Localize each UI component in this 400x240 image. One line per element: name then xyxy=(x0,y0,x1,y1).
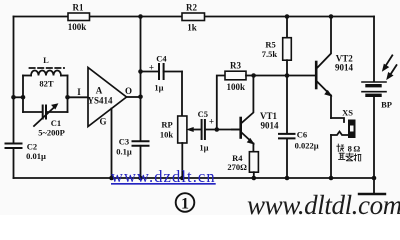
node output xyxy=(138,95,143,100)
svg-text:1µ: 1µ xyxy=(199,143,208,153)
op-amp A YS414 xyxy=(77,68,132,127)
node tank left xyxy=(21,95,26,100)
node ground G xyxy=(109,176,114,181)
svg-text:0.022µ: 0.022µ xyxy=(295,141,319,151)
svg-text:XS: XS xyxy=(342,108,353,118)
resistor R2 xyxy=(182,3,205,33)
watermark blue www.dzdlt.cn xyxy=(111,167,216,186)
node ground battery xyxy=(372,176,377,181)
capacitor C2 0.01µ xyxy=(6,142,46,162)
svg-text:100k: 100k xyxy=(68,22,87,32)
svg-text:BP: BP xyxy=(381,100,392,110)
wire base node up to R3 xyxy=(217,76,225,130)
node R5 / C6 / VT2 base xyxy=(285,73,290,78)
svg-text:C4: C4 xyxy=(156,54,167,64)
node R3 / VT1 collector xyxy=(251,73,256,78)
node ground XS xyxy=(329,176,334,181)
resistor R1 xyxy=(68,3,90,33)
svg-text:R3: R3 xyxy=(230,61,241,71)
capacitor C5 1µ electrolytic xyxy=(198,109,240,153)
svg-text:G: G xyxy=(99,117,106,127)
wire right rail upper xyxy=(373,17,375,82)
resistor R4 270Ω xyxy=(227,152,258,178)
node top rail / R5 xyxy=(285,14,290,19)
potentiometer RP 10k xyxy=(160,116,202,178)
node VT1 base / R3 xyxy=(215,127,220,132)
svg-text:C1: C1 xyxy=(51,118,61,128)
resistor R3 100k xyxy=(225,61,254,93)
wire opamp output xyxy=(127,96,141,98)
wire tank to left rail xyxy=(14,96,24,98)
svg-text:C2: C2 xyxy=(27,142,37,152)
transistor VT1 9014 xyxy=(232,76,279,152)
svg-text:www.dzdlt.cn: www.dzdlt.cn xyxy=(111,167,216,186)
capacitor C4 1µ electrolytic xyxy=(141,54,183,93)
wire bottom rail xyxy=(14,177,375,179)
label 接8Ω耳塞机 xyxy=(337,144,361,161)
node ground R4 xyxy=(252,176,257,181)
svg-text:1: 1 xyxy=(181,196,189,213)
capacitor C6 0.022µ xyxy=(279,76,319,179)
node ground RP xyxy=(180,176,185,181)
svg-text:C3: C3 xyxy=(119,137,129,147)
wire output node vertical up to top rail xyxy=(140,17,142,98)
node ground C3 xyxy=(138,176,143,181)
battery BP photocell xyxy=(362,82,392,110)
node top rail / VT2 collector xyxy=(329,14,334,19)
svg-text:9014: 9014 xyxy=(335,63,354,73)
capacitor C3 0.1µ xyxy=(116,137,148,179)
svg-text:RP: RP xyxy=(161,120,172,130)
svg-text:R2: R2 xyxy=(186,3,197,13)
svg-text:82T: 82T xyxy=(39,79,54,89)
svg-text:I: I xyxy=(77,87,81,97)
wire tank right vertical xyxy=(67,76,69,113)
svg-text:0.01µ: 0.01µ xyxy=(26,151,46,161)
svg-text:8: 8 xyxy=(348,144,353,154)
svg-text:L: L xyxy=(43,55,49,65)
capacitor C1 variable 5~200P xyxy=(23,104,68,138)
svg-text:10k: 10k xyxy=(160,130,174,140)
svg-text:270Ω: 270Ω xyxy=(227,162,247,172)
svg-text:0.1µ: 0.1µ xyxy=(116,147,132,157)
svg-text:R5: R5 xyxy=(265,40,275,50)
wire C4 to RP xyxy=(181,72,183,117)
wire left rail upper xyxy=(13,17,15,144)
svg-text:C6: C6 xyxy=(297,130,307,140)
svg-text:Ω: Ω xyxy=(353,144,360,154)
svg-text:O: O xyxy=(125,86,132,96)
transistor VT2 9014 xyxy=(316,17,353,119)
svg-text:1µ: 1µ xyxy=(154,83,163,93)
light arrows xyxy=(383,55,397,79)
svg-text:www.dltdl.com: www.dltdl.com xyxy=(247,190,400,215)
node ground C6 xyxy=(285,176,290,181)
watermark www.dltdl.com xyxy=(247,190,400,220)
node tank right xyxy=(65,95,70,100)
wire tank to opamp input xyxy=(68,96,89,98)
resistor R5 7.5k xyxy=(262,17,292,76)
wire right rail lower xyxy=(373,97,375,178)
wire left rail lower xyxy=(13,148,15,178)
node top rail / output feedback xyxy=(138,14,143,19)
wire top rail xyxy=(14,16,375,18)
svg-text:100k: 100k xyxy=(227,82,246,92)
figure number 1 xyxy=(176,193,195,212)
wire opamp ground pin xyxy=(111,109,113,179)
node left rail / tank xyxy=(11,95,16,100)
inductor L 82T xyxy=(23,55,68,89)
svg-text:YS414: YS414 xyxy=(87,96,113,106)
wire collector line R3 to VT2 base xyxy=(254,75,316,77)
svg-text:+: + xyxy=(149,63,154,73)
node junction dots xyxy=(11,14,376,180)
svg-text:A: A xyxy=(96,86,103,96)
jack XS 8 ohm earphone xyxy=(331,108,355,179)
svg-text:R1: R1 xyxy=(73,3,84,13)
node C4 branch xyxy=(138,69,143,74)
svg-text:7.5k: 7.5k xyxy=(262,49,278,59)
svg-text:9014: 9014 xyxy=(261,121,280,131)
wire tank left vertical xyxy=(22,76,24,113)
svg-text:5~200P: 5~200P xyxy=(38,128,65,138)
svg-text:1k: 1k xyxy=(187,23,197,33)
svg-text:VT1: VT1 xyxy=(260,111,278,121)
wire output node down through C3 xyxy=(140,97,142,141)
svg-text:C5: C5 xyxy=(198,109,208,119)
ground xyxy=(359,178,385,194)
svg-text:+: + xyxy=(209,117,214,127)
